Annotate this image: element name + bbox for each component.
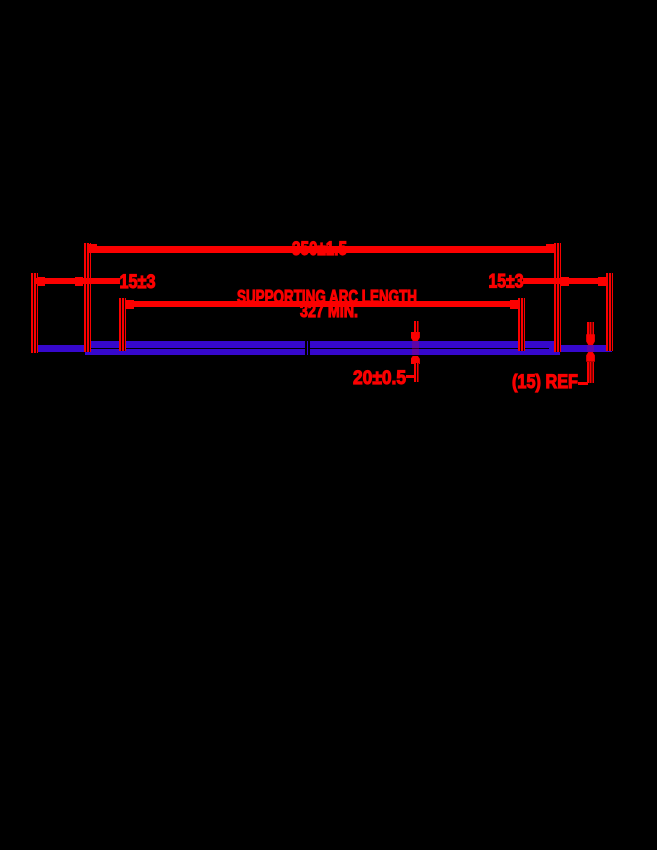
svg-text:20±0.5: 20±0.5 [353, 367, 406, 389]
leader L1 upper stem [414, 321, 420, 333]
leader L1 crossing tint [412, 341, 419, 355]
arrow H1 left [89, 244, 97, 253]
leader L1 connector [406, 375, 415, 378]
extension line V6 outer-right [606, 273, 613, 351]
extension line V3 arc-left [119, 298, 126, 351]
blue bar seam fill [549, 341, 560, 355]
blue bar bottom strip [85, 349, 560, 355]
leader L2 upper stem [587, 322, 594, 335]
arrow H4 right [510, 300, 518, 309]
dimension line H3 right 15±3 [523, 278, 606, 284]
arrow H2 left [37, 277, 45, 286]
bar joint sliver fill [307, 341, 309, 355]
leader L2 down arrow [586, 334, 595, 345]
bar joint gap left [305, 341, 306, 355]
leader L2 crossing tint [587, 345, 594, 352]
arrow H3 left [561, 277, 569, 286]
leader L1 lower stem [414, 363, 420, 382]
svg-text:(15) REF: (15) REF [512, 372, 578, 393]
svg-text:15±3: 15±3 [120, 272, 156, 293]
dimension line H1 top 350±1.5 [90, 246, 555, 253]
extension line V5 inner-right [554, 243, 561, 352]
blue bar left tab [33, 345, 85, 352]
svg-text:15±3: 15±3 [489, 272, 524, 293]
dimension line H2 left 15±3 [36, 278, 120, 284]
extension line V2 inner-left [84, 243, 91, 352]
dimension line H4 arc length [127, 301, 518, 307]
arrow H1 right [546, 244, 554, 253]
arrow H4 left [126, 300, 134, 309]
leader L2 connector [578, 382, 588, 385]
leader L1 down arrow [411, 332, 420, 341]
arrow H3 right [598, 277, 606, 286]
bar joint gap right [308, 341, 310, 355]
blue bar right tab [560, 345, 612, 352]
leader L2 up arrow [586, 352, 595, 362]
svg-text:327 MIN.: 327 MIN. [300, 301, 358, 321]
svg-text:350±1.5: 350±1.5 [292, 239, 347, 260]
leader L1 up arrow [411, 356, 420, 365]
extension line V4 arc-right [518, 298, 525, 351]
extension line V1 outer-left [31, 273, 38, 353]
arrow H2 right [75, 277, 83, 286]
leader L2 lower stem [587, 362, 594, 383]
blue bar top pad [85, 341, 560, 348]
